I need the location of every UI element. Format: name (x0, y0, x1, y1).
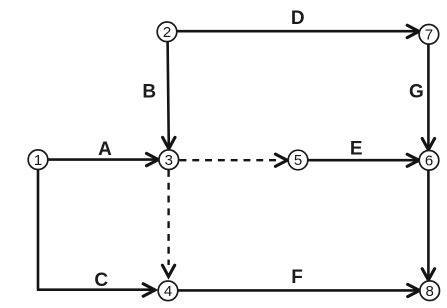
svg-text:6: 6 (425, 153, 433, 170)
svg-text:G: G (409, 81, 424, 102)
svg-text:8: 8 (426, 283, 434, 300)
svg-text:1: 1 (34, 152, 42, 169)
svg-text:2: 2 (163, 24, 171, 41)
svg-text:7: 7 (425, 27, 433, 44)
svg-text:B: B (142, 82, 156, 103)
svg-text:4: 4 (164, 283, 172, 300)
svg-text:5: 5 (294, 152, 302, 169)
svg-text:F: F (291, 267, 303, 288)
svg-text:A: A (98, 139, 112, 160)
svg-text:3: 3 (165, 152, 173, 169)
svg-text:E: E (350, 139, 363, 160)
svg-text:D: D (291, 8, 305, 29)
svg-text:C: C (94, 270, 108, 291)
